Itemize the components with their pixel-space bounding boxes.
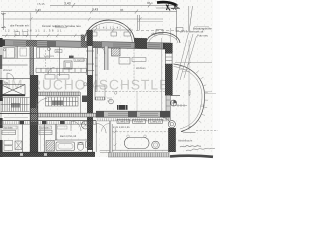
bow window arc 2 inner: [149, 34, 178, 43]
dim chain under arc1: [88, 29, 133, 31]
stair dark smear: [11, 103, 20, 108]
vertical dim line right of center unit: [161, 38, 163, 111]
stair core top wall band: [38, 92, 80, 96]
tick strip under band: [96, 118, 170, 121]
svg-text:Wohnen: Wohnen: [136, 67, 146, 70]
column symbol upper: [171, 100, 177, 106]
label box right: [74, 58, 84, 62]
stair door swing: [37, 99, 48, 110]
small circle symbol: [109, 99, 114, 104]
heavy ink stroke top right: [157, 2, 177, 5]
bow window arc 1 outer: [85, 20, 135, 43]
handwriting squiggle line 2: [186, 148, 215, 151]
interior wall x17: [16, 46, 17, 58]
scribble mark near dim end: [171, 5, 180, 10]
toilet: [77, 143, 83, 151]
dining table rounded: [125, 138, 150, 149]
svg-text:Zimmer: Zimmer: [3, 69, 12, 72]
extension line above right wall corner: [170, 28, 172, 43]
svg-text:5 Stg.: 5 Stg.: [2, 82, 9, 85]
dashed line across arc2: [136, 30, 187, 32]
svg-text:alte Fenster erh.: alte Fenster erh.: [10, 25, 30, 28]
kitchen counter band: [36, 68, 87, 72]
bottom right dark scan smear: [170, 156, 213, 157]
dimension line B: [1, 10, 177, 14]
left unit thick interior wall: [30, 75, 38, 152]
cross tick marks right of arc2 left springing: [151, 33, 156, 36]
small dark cabinet: [69, 56, 74, 59]
short line under heavy stroke: [156, 7, 177, 9]
terrace edge line: [112, 149, 168, 151]
svg-text:Abstellraum: Abstellraum: [178, 140, 193, 143]
right wall lower dark: [169, 128, 176, 152]
extension line x176: [176, 6, 178, 40]
stair flight left (vertical treads): [1, 98, 30, 112]
bow window arc 1 inner: [87, 22, 132, 42]
svg-text:Bad 2,05/1,68: Bad 2,05/1,68: [60, 135, 77, 138]
dimension line A (top): [50, 3, 176, 8]
window label boxes left unit: [15, 32, 20, 35]
bow window arc 2 outer: [147, 32, 181, 43]
corridor door swing: [98, 46, 106, 54]
balcony arc lower end: [181, 132, 196, 133]
annotation text top right: [194, 26, 209, 28]
svg-text:2,26 1,38 2: 2,26 1,38 2,26: [113, 126, 130, 129]
paper background: [0, 0, 220, 160]
label boxes row: [117, 119, 130, 123]
dashed vertical center unit: [133, 46, 135, 86]
top exterior wall band (sheared to match scan warp): [0, 18, 180, 50]
balcony railing inner line: [174, 67, 203, 130]
stair core bottom band: [38, 113, 96, 117]
lintel ticks across wall: [86, 51, 94, 71]
fixture rects left room: [4, 140, 13, 145]
chairs small: [127, 135, 130, 138]
wall pier between arcs: [135, 38, 148, 49]
bed left room: [3, 48, 15, 59]
window double lines: [13, 42, 160, 47]
short tick marks under dim: [179, 67, 190, 72]
stairwell X-box (light well): [1, 85, 26, 96]
small circle symbol: [84, 83, 87, 86]
label box + couch second room: [40, 126, 52, 129]
interior wall x105: [104, 46, 108, 70]
divider x59: [59, 48, 61, 77]
right exterior wall upper: [165, 43, 180, 120]
door arc kitchen: [71, 121, 81, 131]
handwriting squiggle line 1: [180, 145, 201, 147]
svg-text:1,20: 1,20: [200, 105, 206, 108]
dark table lower room: [117, 105, 128, 110]
railing ticks on balcony arc: [196, 71, 208, 123]
wall line y78: [0, 77, 30, 79]
door arc top right of room: [163, 118, 171, 126]
dashed beam line: [95, 90, 165, 92]
left wall of room: [111, 121, 112, 155]
svg-text:12 11 1,38 11 1,38 11: 12 11 1,38 11 1,38 11: [5, 29, 63, 33]
wardrobe: [20, 48, 27, 56]
room line y58.4: [3, 57, 87, 59]
duct box near central wall: [82, 96, 87, 103]
svg-text:Balkon-Terrasse neu: Balkon-Terrasse neu: [55, 24, 81, 28]
scan white margin right: [213, 0, 220, 160]
bath wall line: [55, 139, 93, 141]
balcony dim horizontal: [175, 62, 212, 64]
svg-text:Putz neu: Putz neu: [197, 33, 208, 37]
label box 36: [55, 50, 62, 53]
dashed line: [112, 131, 168, 133]
corridor wall: [96, 46, 98, 92]
svg-text:1,01/2,01: 1,01/2,01: [75, 59, 86, 62]
svg-text:86,1: 86,1: [147, 1, 153, 5]
bed second room: [37, 47, 51, 58]
svg-text:Fenster: Fenster: [134, 121, 143, 124]
corridor verticals: [96, 121, 109, 155]
label box + couch left room: [3, 126, 17, 129]
center unit lower wall band: [96, 111, 170, 117]
svg-text:Schlafen: Schlafen: [4, 127, 14, 130]
double circle column: [168, 121, 175, 128]
interior wall vertical x30: [30, 46, 34, 75]
interior walls bottom left: [23, 124, 45, 152]
stair flight middle (horizontal treads): [46, 97, 79, 106]
svg-text:86: 86: [120, 8, 124, 12]
wall pier below arc1 left: [84, 41, 102, 48]
square table: [64, 61, 72, 69]
shower box with X: [15, 141, 22, 150]
door arcs left: [7, 73, 14, 80]
extension line x30: [30, 13, 32, 41]
column circle at corridor top: [82, 121, 90, 129]
light verticals dim in rooms: [18, 126, 41, 152]
leader diagonals to balcony wall: [177, 33, 197, 80]
extension line x188 converging pair: [189, 6, 193, 31]
scan white margin bottom: [0, 157, 220, 160]
balcony curved outline: [174, 64, 205, 132]
central party wall: [86, 30, 94, 152]
svg-text:1,38/2,01: 1,38/2,01: [150, 121, 161, 124]
paper speckle: [0, 0, 213, 157]
table center unit: [119, 58, 130, 65]
wall pier left corner: [0, 40, 5, 46]
door arc kitchen left: [48, 68, 55, 75]
lower right wall with sills: [166, 96, 171, 121]
dim drop verticals between arcs: [138, 15, 140, 31]
svg-text:3,43: 3,43: [92, 8, 98, 12]
left vertical dimension: [1, 13, 6, 31]
svg-text:4,50: 4,50: [188, 90, 192, 96]
label boxes under arc1: [89, 32, 97, 36]
bottom exterior wall left: [0, 152, 95, 156]
arc1 left springing pier: [81, 35, 85, 48]
closet wall near central: [85, 58, 87, 75]
svg-text:12 41 12 41: 12 41 12 41: [96, 26, 122, 30]
room lines below stairs: [4, 117, 28, 119]
svg-text:3,43: 3,43: [35, 8, 41, 12]
kitchen-bath wall vertical: [55, 124, 56, 140]
wall pier kitchen: [60, 121, 65, 125]
top wall line of bottom rooms: [0, 120, 96, 122]
dashed line right lower: [196, 130, 218, 132]
svg-text:3,43: 3,43: [64, 2, 71, 6]
stair core right wall line: [80, 92, 82, 113]
svg-text:Schlafen: Schlafen: [41, 127, 51, 130]
corridor door arcs bottom: [97, 124, 107, 134]
vertical dim line bottom room: [114, 128, 117, 150]
kitchen label box: [57, 126, 67, 129]
wall pier: [26, 40, 37, 46]
svg-text:1,38/2,01: 1,38/2,01: [118, 121, 129, 124]
stair bottom wall line: [0, 113, 38, 115]
left exterior wall: [0, 38, 3, 157]
under counter cabinets: [45, 75, 69, 80]
dashed vertical left unit: [45, 50, 47, 67]
bottom tick band center: [108, 153, 170, 157]
svg-text:+5,15: +5,15: [37, 2, 45, 6]
bath fixtures right of wall: [46, 141, 55, 152]
balcony vertical dim: [188, 40, 190, 130]
double circle (round table): [152, 141, 160, 149]
dimension line C: [3, 17, 163, 21]
ticks row near column: [176, 104, 187, 107]
corridor niche: [95, 86, 105, 100]
wall pier: [47, 41, 56, 47]
chimney hatched box: [112, 48, 121, 56]
label box under arc2: [156, 30, 163, 34]
sink: [86, 142, 93, 148]
wall line y65: [0, 64, 28, 66]
bathtub: [56, 142, 75, 151]
wall pier right corner: [163, 43, 170, 49]
dim chain line left unit: [2, 35, 87, 37]
bottom unit wall band: [0, 121, 96, 124]
